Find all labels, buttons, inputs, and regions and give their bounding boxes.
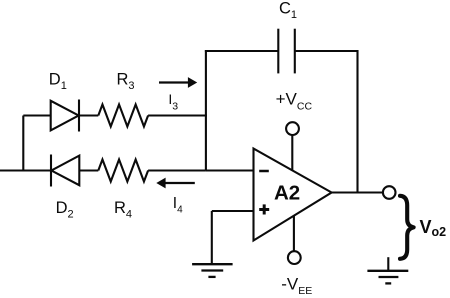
wire C1 right [295, 50, 358, 52]
resistor R3 [98, 105, 148, 127]
arrow I3 [159, 77, 197, 88]
terminal +Vcc circle [286, 122, 299, 135]
wire D2 to R4 [79, 169, 98, 171]
wire R3 to summing node [148, 114, 207, 116]
wire feedback vertical [356, 50, 358, 193]
wire D1 to R3 [79, 114, 98, 116]
diode D2 [51, 155, 79, 187]
wire input left at node row2 [0, 169, 51, 171]
op-amp A2 triangle [254, 149, 332, 241]
wire plus input [212, 210, 254, 212]
wire C1 left [205, 50, 278, 52]
capacitor C1 [278, 29, 295, 74]
wire plus input to ground [211, 211, 213, 263]
wire R4 to summing node [148, 169, 206, 171]
wire +Vcc stub [291, 135, 293, 171]
terminal output circle [383, 186, 396, 199]
brace Vo2 [400, 196, 414, 259]
wire minus input [206, 169, 254, 171]
wire ground stub (output reference) [387, 257, 389, 270]
ground (output reference) [367, 271, 408, 284]
wire summing node vertical [205, 50, 207, 171]
ground (non-inverting input) [192, 264, 233, 277]
diode D1 [51, 100, 79, 132]
plus sign (non-inverting input) [259, 204, 269, 214]
terminal -Vee circle [288, 251, 301, 264]
minus sign (inverting input) [259, 170, 269, 173]
wire output [332, 191, 383, 193]
svg-text:A2: A2 [274, 181, 300, 204]
resistor R4 [98, 160, 148, 182]
wire to D1 anode [23, 114, 51, 116]
wire left vertical junction [22, 116, 24, 172]
wire -Vee stub [293, 216, 295, 251]
arrow I4 [156, 178, 195, 189]
